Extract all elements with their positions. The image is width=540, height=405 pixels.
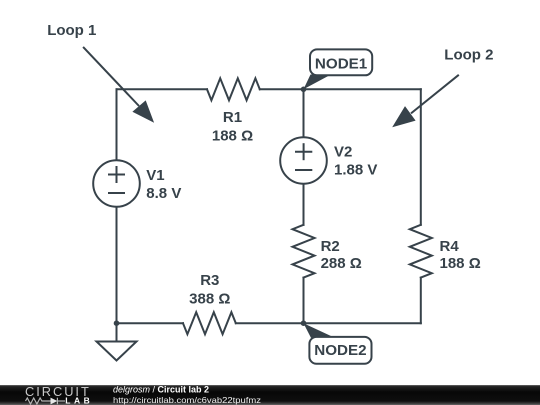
svg-text:Loop 1: Loop 1 xyxy=(47,22,96,39)
svg-text:8.8 V: 8.8 V xyxy=(146,185,181,202)
svg-text:R3: R3 xyxy=(200,272,219,289)
svg-text:V1: V1 xyxy=(146,167,164,184)
svg-text:1.88 V: 1.88 V xyxy=(334,162,377,179)
svg-text:LAB: LAB xyxy=(65,395,90,405)
svg-text:188 Ω: 188 Ω xyxy=(212,128,253,145)
svg-text:http://circuitlab.com/c6vab22t: http://circuitlab.com/c6vab22tpufmz xyxy=(113,395,261,405)
svg-text:R2: R2 xyxy=(321,238,340,255)
svg-text:188 Ω: 188 Ω xyxy=(440,255,481,272)
svg-text:R1: R1 xyxy=(223,109,242,126)
svg-text:delgrosm / Circuit lab 2: delgrosm / Circuit lab 2 xyxy=(113,384,209,394)
svg-text:NODE2: NODE2 xyxy=(314,342,366,359)
svg-text:V2: V2 xyxy=(334,143,352,160)
svg-text:388 Ω: 388 Ω xyxy=(189,290,230,307)
svg-text:NODE1: NODE1 xyxy=(315,56,368,73)
svg-text:Loop 2: Loop 2 xyxy=(444,46,493,63)
svg-text:288 Ω: 288 Ω xyxy=(321,255,362,272)
svg-text:R4: R4 xyxy=(440,238,460,255)
